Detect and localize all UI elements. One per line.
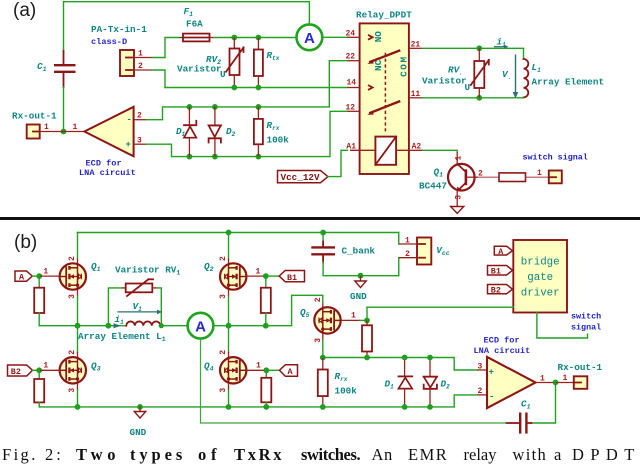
svg-text:1: 1 (454, 156, 463, 161)
svg-text:Rx-out-1: Rx-out-1 (558, 362, 603, 373)
diode D1 (a) zener (184, 107, 196, 157)
varistor RV1 (122, 279, 158, 296)
svg-text:2: 2 (138, 62, 143, 71)
svg-text:2: 2 (314, 297, 323, 302)
ammeter A (section a) (297, 24, 323, 50)
svg-text:Rrx: Rrx (267, 120, 280, 132)
svg-text:1: 1 (540, 375, 545, 384)
top rail (b) (78, 232, 399, 234)
ground GND (b bottom) (130, 407, 147, 438)
ammeter (b) (188, 313, 214, 339)
junction varistor branch (106, 323, 112, 329)
transistor Q3 (b) (60, 326, 86, 407)
resistor R_rx 100k (a) (254, 107, 263, 157)
svg-text:1: 1 (256, 362, 261, 371)
svg-text:3: 3 (478, 362, 483, 371)
relay K1 Relay_DPDT body (360, 23, 409, 174)
fuse F1 (180, 34, 214, 42)
svg-text:Rtx: Rtx (267, 50, 280, 62)
wire Vcc_12V to relay A1 (328, 150, 348, 176)
junctions D1 (402, 355, 408, 361)
global label B2 (driver) (488, 285, 513, 296)
svg-text:Varistor: Varistor (177, 64, 222, 75)
resistor Q5 gate pulldown (362, 320, 372, 357)
svg-text:COM: COM (399, 55, 410, 77)
bridge gate driver box (513, 240, 567, 313)
capacitor C1 (54, 51, 76, 87)
svg-text:3: 3 (454, 195, 463, 200)
wire top loop left (64, 2, 310, 51)
bottom rail (b) (39, 395, 477, 407)
svg-text:Array Element L1: Array Element L1 (78, 331, 166, 343)
svg-text:24: 24 (346, 29, 356, 38)
diode D1 (b) (399, 358, 413, 407)
svg-text:B1: B1 (287, 273, 297, 283)
junction Q1 source (75, 323, 81, 329)
svg-text:class-D: class-D (91, 37, 127, 47)
svg-text:1: 1 (138, 50, 143, 59)
svg-text:NC: NC (373, 59, 384, 71)
relay pin 22 with lever (348, 50, 401, 64)
svg-text:Q4: Q4 (204, 361, 214, 373)
svg-text:A: A (195, 318, 206, 335)
resistor B1 (b) (261, 276, 271, 326)
svg-text:2: 2 (219, 350, 228, 355)
capacitor C_bank (311, 233, 398, 276)
svg-text:Vcc_12V: Vcc_12V (281, 172, 320, 183)
svg-text:Q2: Q2 (204, 261, 214, 273)
voltage arrow V (a) (502, 55, 518, 99)
connector PA-Tx-in-1 (120, 50, 152, 76)
svg-text:Rrx: Rrx (335, 371, 348, 383)
svg-text:gate: gate (527, 272, 553, 284)
svg-text:1: 1 (43, 362, 48, 371)
global label A (Q4) (279, 365, 297, 377)
node junction at op-amp input (61, 129, 67, 135)
junction GND C_bank (358, 273, 364, 279)
svg-text:bridge: bridge (521, 257, 560, 269)
svg-text:2: 2 (137, 112, 142, 121)
svg-text:2: 2 (68, 350, 77, 355)
junctions D rails (187, 104, 193, 110)
junction bottom rail Rtx (256, 85, 262, 91)
svg-text:1: 1 (537, 169, 542, 178)
svg-text:1: 1 (563, 374, 568, 383)
svg-text:3: 3 (68, 294, 77, 299)
svg-text:1: 1 (351, 312, 356, 321)
wire fuse to ammeter (top rail) (214, 37, 297, 39)
current arrow i1 (a) (494, 37, 509, 49)
svg-text:A2: A2 (412, 143, 422, 152)
svg-text:100k: 100k (335, 386, 358, 397)
svg-text:V.: V. (502, 69, 511, 81)
resistor R_rx (b) (318, 358, 328, 407)
junction Q2 source (226, 323, 232, 329)
svg-text:2: 2 (478, 387, 483, 396)
svg-text:A1: A1 (346, 143, 356, 152)
svg-text:PA-Tx-in-1: PA-Tx-in-1 (91, 24, 147, 35)
feedback wire opamp out down (531, 383, 555, 424)
svg-text:F6A: F6A (186, 19, 203, 30)
junctions D2 (427, 355, 433, 361)
relay pin 11 (409, 97, 423, 99)
varistor RV1 branch wires (108, 288, 121, 326)
svg-text:Q1: Q1 (434, 167, 444, 179)
svg-text:D2: D2 (226, 126, 236, 138)
relay pin 21 (409, 47, 423, 49)
svg-text:1: 1 (73, 123, 78, 132)
varistor right wire down (157, 288, 161, 326)
junction load top (476, 45, 482, 51)
svg-text:Rx-out-1: Rx-out-1 (12, 111, 57, 122)
junction R_rx bottom (320, 404, 326, 410)
svg-text:11: 11 (411, 90, 421, 99)
transistor Q5 (314, 304, 340, 358)
svg-text:ECD for: ECD for (484, 335, 520, 345)
mid rail left segment (39, 325, 126, 327)
junction B1 resistor bottom (263, 323, 269, 329)
svg-text:B2: B2 (491, 286, 501, 296)
svg-text:C1: C1 (37, 61, 47, 73)
svg-text:B1: B1 (491, 267, 501, 277)
svg-text:GND: GND (130, 427, 147, 438)
connector Rx-out-1 (a) (27, 125, 58, 139)
svg-text:+: + (489, 368, 494, 378)
resistor A gate Q4 (261, 370, 271, 407)
junction A res bottom (263, 404, 269, 410)
svg-text:22: 22 (346, 53, 356, 62)
ground (a) (451, 203, 464, 214)
bridge gate driver text (521, 257, 560, 300)
junction top rail RV2 (231, 35, 237, 41)
svg-text:D2: D2 (441, 379, 451, 391)
junction Q4 source (226, 404, 232, 410)
relay pin 12 with lever (348, 101, 401, 115)
junction coil right (159, 323, 164, 328)
wire driver bottom switch signal (537, 313, 588, 339)
V1 arrow (117, 301, 162, 314)
svg-text:NO: NO (373, 31, 384, 43)
svg-text:D1: D1 (385, 379, 395, 391)
svg-text:C1: C1 (521, 399, 531, 411)
svg-text:14: 14 (347, 79, 357, 88)
svg-text:2: 2 (219, 256, 228, 261)
svg-text:Q1: Q1 (91, 261, 101, 273)
global label B1 (driver) (488, 266, 513, 277)
capacitor C1 (b) (506, 413, 531, 434)
panel label (a) (13, 0, 36, 22)
transistor Q2 (b) (220, 233, 246, 326)
svg-text:1: 1 (43, 267, 48, 276)
svg-text:Varistor RV1: Varistor RV1 (115, 265, 180, 277)
svg-text:i1: i1 (115, 314, 125, 326)
svg-text:3: 3 (314, 338, 323, 343)
svg-text:U: U (220, 69, 226, 80)
connector Vcc (399, 233, 432, 276)
diode D2 (a) (209, 107, 221, 157)
svg-text:C_bank: C_bank (342, 246, 376, 257)
connector Rx-out-1 (b) (556, 376, 588, 389)
wire ammeter to relay pin 24 (322, 36, 347, 38)
junction bottom rail RV2 (231, 85, 237, 91)
svg-text:Vcc: Vcc (436, 245, 449, 257)
svg-text:1: 1 (405, 237, 410, 246)
svg-text:100k: 100k (267, 135, 290, 146)
rail Q5 source (b) (323, 358, 478, 371)
svg-text:B2: B2 (11, 367, 21, 377)
op-amp U1 ECD (a) (58, 107, 146, 157)
transistor Q4 (b) (220, 326, 246, 407)
svg-text:V1: V1 (133, 301, 143, 313)
svg-text:BC447: BC447 (419, 181, 447, 192)
panel label (b) (14, 232, 37, 254)
ground GND (C_bank) (350, 276, 367, 302)
svg-text:-: - (127, 115, 132, 125)
svg-text:LNA circuit: LNA circuit (79, 168, 136, 178)
junction Q3 source (75, 404, 81, 410)
svg-text:-: - (489, 392, 494, 402)
wire coil to ammeter (161, 325, 187, 327)
Q4 gate wire (246, 367, 279, 373)
svg-text:Array Element: Array Element (532, 77, 605, 88)
global label A (driver) (494, 246, 512, 257)
svg-text:3: 3 (219, 294, 228, 299)
switch signal label (b) (571, 311, 601, 332)
wire pin2 to bottom rail (152, 70, 165, 88)
diode D2 (b) (424, 358, 437, 407)
divider line (0, 217, 640, 220)
svg-text:1: 1 (256, 267, 261, 276)
global label B2 (8, 365, 60, 377)
resistor R_tx (a) (254, 38, 263, 88)
varistor RV (a right) (471, 48, 489, 98)
wire pin11 to load bottom (423, 97, 524, 99)
svg-text:A: A (304, 30, 315, 47)
base resistor (a switch) (478, 173, 549, 182)
svg-text:switch: switch (571, 311, 601, 321)
junction Q2 drain top (226, 230, 232, 236)
svg-text:3: 3 (219, 388, 228, 393)
svg-text:Varistor: Varistor (422, 76, 467, 87)
svg-text:Q5: Q5 (300, 307, 310, 319)
svg-text:switch signal: switch signal (523, 153, 588, 163)
global label A (Q1 gate) (15, 271, 60, 283)
relay coil (350, 137, 423, 165)
svg-text:D1: D1 (176, 126, 186, 138)
svg-text:1: 1 (44, 123, 49, 132)
svg-text:Q3: Q3 (91, 361, 101, 373)
junction GND (b) (137, 404, 143, 410)
transistor Q1 (b) (60, 233, 86, 326)
wire pin1 to fuse (152, 38, 180, 58)
svg-text:2: 2 (68, 256, 77, 261)
relay dashed link (384, 53, 386, 134)
wire pin21 to load top (423, 47, 524, 49)
wire C1 to ammeter bottom (201, 339, 507, 423)
inductor L1 array element (a) (524, 48, 529, 98)
junction C_bank top (320, 230, 326, 236)
svg-text:12: 12 (346, 103, 356, 112)
Q2 gate wire (246, 273, 279, 279)
junction pulldown bottom (364, 355, 370, 361)
junction Q5 source (320, 355, 326, 361)
varistor RV2 (226, 38, 244, 88)
svg-text:2: 2 (405, 250, 410, 259)
junction top rail Rtx (256, 35, 262, 41)
svg-text:3: 3 (68, 388, 77, 393)
resistor A gate (b) (34, 276, 44, 326)
connector switch signal (a) (549, 171, 562, 184)
wire opamp pin3 to bottom D rail (146, 111, 347, 156)
mid rail right segment (213, 295, 322, 325)
svg-text:21: 21 (411, 40, 421, 49)
op-amp ECD (b) (478, 357, 556, 408)
global label B1 (279, 271, 304, 283)
junction load bottom (476, 95, 482, 101)
svg-text:L1: L1 (532, 62, 542, 74)
inductor L1 (b) (126, 321, 160, 325)
svg-text:LNA circuit: LNA circuit (474, 346, 531, 356)
i1 arrow (114, 314, 125, 328)
svg-text:U: U (465, 82, 471, 93)
svg-text:3: 3 (137, 137, 142, 146)
junction opamp out (553, 380, 559, 386)
global label Vcc_12V (278, 171, 328, 184)
relay pin 14 (348, 86, 373, 90)
svg-text:+: + (126, 140, 131, 150)
Q5 gate wire (341, 307, 370, 323)
transistor Q1 BC447 (448, 152, 478, 203)
svg-text:driver: driver (521, 288, 560, 300)
wire relay A2 to Q1 collector (423, 150, 458, 152)
wire opamp pin2 to top D rail (146, 61, 347, 120)
resistor B2 (b) (34, 370, 44, 407)
relay pin 24 (348, 35, 373, 39)
wire driver output to Q5 gate node (367, 306, 513, 308)
wire C1 to node A (63, 87, 65, 132)
svg-text:Relay_DPDT: Relay_DPDT (356, 10, 412, 21)
svg-text:GND: GND (350, 291, 367, 302)
bottom rail of RV2/Rtx to relay pin14 (165, 87, 348, 89)
svg-text:signal: signal (571, 323, 601, 333)
svg-text:F1: F1 (184, 6, 194, 18)
caption (0, 0, 640, 1)
